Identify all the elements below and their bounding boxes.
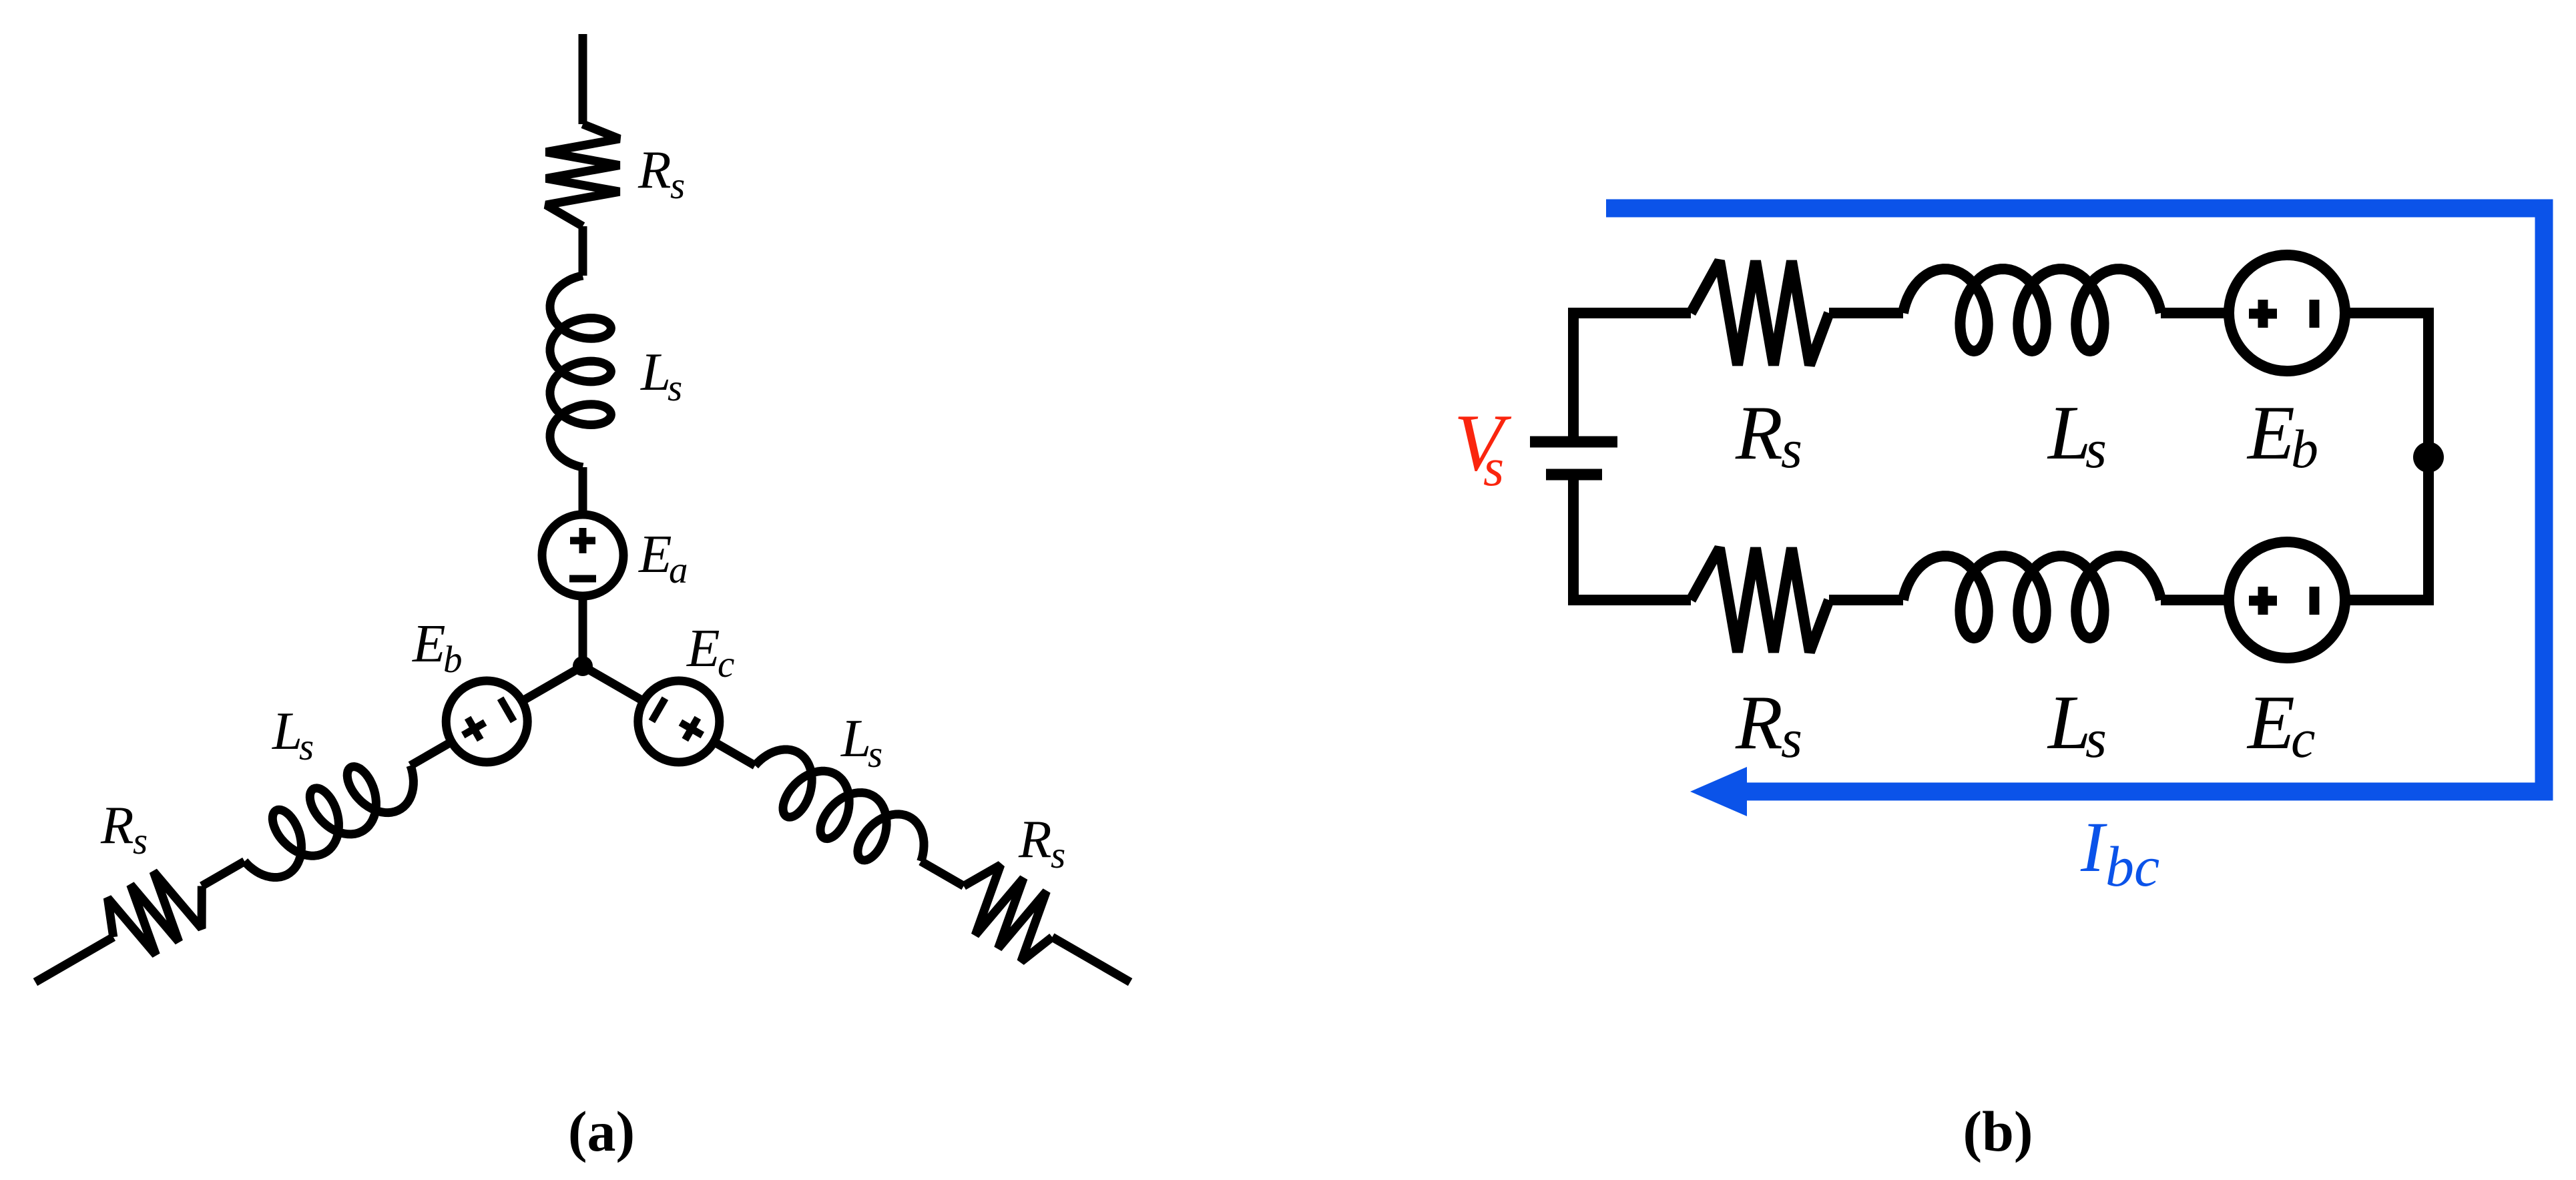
wire (bottom (phase c): resistor to inductor) [1829,595,1903,605]
Eb minus sign [501,698,514,721]
svg-text:E: E [2246,680,2295,766]
current loop arrowhead [1690,767,1747,816]
svg-text:E: E [638,524,672,584]
wire (phase a: Ea to inductor) [579,467,587,515]
wire (bottom (phase c): battery to resistor) [1568,595,1691,605]
inductor L_s (bottom (phase c)) [1903,556,2161,638]
svg-text:s: s [668,367,682,409]
Ec plus sign [680,718,702,740]
svg-text:s: s [2085,418,2107,479]
minus tick (top (phase b)) [2310,300,2320,328]
wire (top (phase b): resistor to inductor) [1829,308,1903,318]
svg-text:s: s [1781,418,1802,479]
voltage source Eb [446,681,527,762]
svg-text:s: s [1483,438,1504,497]
wire (phase c: Ec to inductor) [714,742,756,766]
svg-text:(a): (a) [568,1099,635,1163]
wire (top (phase b): battery to resistor) [1568,308,1691,318]
svg-text:c: c [2291,708,2315,769]
wire (bottom (phase c): source to right bus) [2345,595,2434,605]
junction dot (node bc) [2413,442,2444,473]
svg-text:s: s [2085,708,2107,769]
wire (right vertical, node b-c) [2423,313,2434,600]
current loop I_bc (blue path) [1606,208,2544,792]
svg-text:R: R [100,795,134,855]
svg-text:R: R [1735,390,1783,476]
Ea plus sign [570,528,595,553]
svg-text:I: I [2080,808,2107,887]
inductor L_s (phase a) [550,276,611,467]
inductor L_s (top (phase b)) [1903,269,2161,351]
wire (phase b: node to source Eb) [521,666,583,702]
battery V_s positive plate [1530,436,1617,448]
wire (phase a terminal) [579,34,587,124]
wire (phase c: node to source Ec) [583,666,645,702]
svg-text:E: E [2246,390,2295,476]
Ea minus sign [569,575,596,583]
inductor L_s (phase b) [244,766,413,878]
svg-text:s: s [133,820,148,862]
resistor R_s (bottom (phase c)) [1691,548,1829,652]
wire (phase b terminal) [35,937,113,982]
battery V_s negative plate [1546,469,1602,481]
wire (top (phase b): source to right bus) [2345,308,2434,318]
wire (phase a: inductor to resistor) [579,226,587,276]
svg-text:E: E [686,618,720,678]
resistor R_s (top (phase b)) [1691,261,1829,365]
voltage source Ec [638,681,720,762]
svg-text:a: a [669,549,688,591]
wire (bottom (phase c): inductor to source) [2161,595,2229,605]
node (neutral point) [573,656,593,676]
svg-text:R: R [1018,809,1051,869]
wire (battery bottom lead) [1568,480,1579,605]
svg-text:s: s [1051,834,1065,876]
svg-text:s: s [299,726,314,768]
svg-text:L: L [2047,680,2091,766]
voltage source (bottom (phase c)) [2229,542,2345,658]
svg-text:b: b [2291,418,2318,479]
svg-text:s: s [670,165,685,207]
voltage source Ea [542,515,623,596]
svg-text:s: s [1781,708,1802,769]
minus tick (bottom (phase c)) [2310,587,2320,615]
svg-text:E: E [412,613,445,673]
inductor L_s (phase c) [755,750,924,862]
wire (battery top lead) [1568,308,1579,436]
resistor R_s (phase b) [107,872,202,955]
svg-text:bc: bc [2105,834,2159,898]
svg-text:R: R [637,139,671,200]
svg-text:L: L [640,342,671,402]
wire (phase b: inductor to resistor) [202,862,244,886]
svg-text:(b): (b) [1963,1099,2033,1163]
wire (phase c: inductor to resistor) [921,862,964,886]
wire (phase b: Eb to inductor) [411,742,452,766]
voltage source (top (phase b)) [2229,255,2345,371]
svg-text:L: L [272,701,302,761]
svg-text:L: L [840,708,871,768]
svg-text:b: b [443,639,463,681]
wire (phase c terminal) [1052,937,1130,982]
svg-text:R: R [1735,680,1783,766]
svg-text:c: c [718,643,734,685]
svg-text:s: s [868,733,882,776]
wire (phase a: node to source Ea) [579,595,587,666]
Ec minus sign [652,698,665,721]
svg-text:L: L [2047,390,2091,476]
plus sign (bottom (phase c)) [2249,587,2277,615]
plus sign (top (phase b)) [2249,300,2277,328]
resistor R_s (phase a) [546,124,619,226]
Eb plus sign [463,718,485,740]
wire (top (phase b): inductor to source) [2161,308,2229,318]
resistor R_s (phase c) [964,865,1053,962]
